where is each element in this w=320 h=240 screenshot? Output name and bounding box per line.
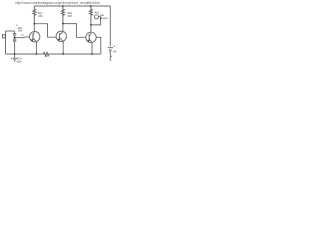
wire C1 node to Q1 base [15, 37, 25, 39]
arrow Q3 emitter [88, 40, 90, 43]
wire right rail down to battery [109, 6, 111, 46]
node A [34, 23, 36, 25]
svg-text:4k7: 4k7 [95, 11, 100, 15]
node Q2 emitter-rail [62, 53, 64, 55]
wire battery negative lead [109, 51, 111, 61]
wire node C to output terminal [91, 17, 101, 25]
ground battery [109, 59, 111, 61]
junction dots [14, 5, 112, 57]
value labels [10, 1, 116, 63]
resistor R4 [14, 38, 16, 40]
wire node B to Q3 base [63, 24, 86, 38]
wire Q3 emitter terminal to rail corner [96, 37, 101, 54]
svg-text:10v: 10v [17, 59, 22, 63]
transistor Q2 [56, 31, 66, 41]
resistor R5 in bottom rail [43, 52, 49, 55]
wire bottom rail left [6, 53, 44, 55]
dot battery negative label [111, 56, 112, 57]
resistor R3 [89, 6, 92, 25]
arrow Q1 emitter [31, 39, 33, 42]
node rail-R2 [62, 5, 64, 7]
resistor R2 [61, 6, 64, 24]
svg-text:phone: phone [100, 16, 108, 20]
node B [62, 23, 64, 25]
wire mic to C1 [6, 30, 15, 32]
node rail-R3 [90, 5, 92, 7]
wire R3 to Q3 collector [90, 25, 92, 32]
arrow Q2 emitter [58, 39, 60, 42]
node Q3 emitter-rail [91, 53, 93, 55]
capacitor C1 [14, 31, 16, 33]
wire Q3 emitter to rail [91, 43, 93, 54]
svg-text:16v: 16v [18, 29, 23, 33]
battery B1 9V [108, 47, 113, 49]
terminal output jack [94, 15, 98, 19]
node Q1 emitter-rail [36, 53, 38, 55]
ground left [14, 54, 16, 58]
wire top supply rail [34, 5, 110, 7]
resistor R1 [33, 6, 36, 24]
svg-text:9V: 9V [113, 50, 117, 54]
wire bottom rail right [49, 53, 101, 55]
wire Q1 emitter to rail [35, 42, 37, 54]
wire R1 to Q1 collector [33, 24, 35, 32]
svg-text:+: + [113, 45, 115, 49]
svg-text:47k: 47k [38, 14, 43, 18]
svg-text:4k7: 4k7 [68, 14, 73, 18]
wire Q2 emitter to rail [62, 41, 64, 54]
node rail-gnd [14, 53, 16, 55]
transistor Q1 [24, 32, 40, 42]
node C1-base [14, 37, 16, 39]
wire R2 to Q2 collector [62, 24, 64, 32]
wire node A to Q2 base [34, 24, 56, 38]
node C [90, 24, 92, 26]
svg-text:http://www.circuitsdiagram.org: http://www.circuitsdiagram.org/microphon… [15, 1, 100, 5]
microphone MIC1 [5, 31, 7, 54]
transistor Q3 [86, 32, 96, 43]
